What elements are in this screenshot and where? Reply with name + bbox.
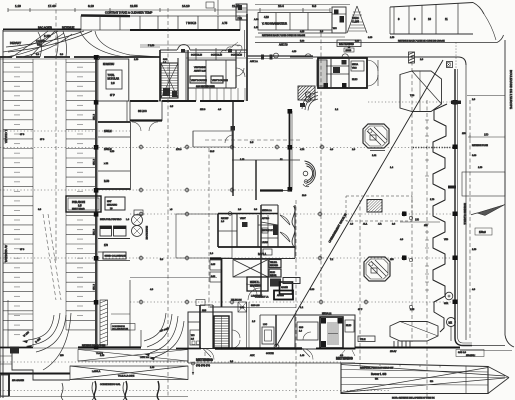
svg-text:MBL B: MBL B [94,113,96,120]
svg-text:ADMIN: ADMIN [281,286,288,289]
parking stalls col2 [66,63,95,330]
svg-text:RETENUE EAUX PLUIE CURE DE ORA: RETENUE EAUX PLUIE CURE DE ORAGE [262,34,305,37]
sab mali labels [456,350,484,358]
svg-text:175.8: 175.8 [176,149,182,151]
svg-text:TELE: TELE [360,339,366,341]
svg-text:5%: 5% [375,379,378,381]
columns on spine [94,55,99,349]
svg-text:VESTIAIRE: VESTIAIRE [194,66,206,69]
svg-text:RETENUE DE LA CUVEE: RETENUE DE LA CUVEE [82,344,106,347]
svg-text:17.40: 17.40 [48,4,56,8]
block L bottom-center [188,305,232,349]
svg-text:1.10: 1.10 [15,4,21,8]
svg-text:MECA 2.1: MECA 2.1 [322,312,332,315]
wall: center spine vertical x290 [288,109,293,192]
svg-text:150: 150 [415,219,420,222]
cluster: door swings right [280,205,295,258]
svg-text:CORNICHE DU GAL: CORNICHE DU GAL [100,383,121,386]
marker circle x [446,62,450,66]
stair block L [214,316,229,348]
wall: garage spine x96 [96,57,98,348]
dashed room top-right + hatch box [346,196,412,226]
svg-text:BETA PHILOTAPERO: BETA PHILOTAPERO [100,218,122,221]
svg-text:37 P: 37 P [110,95,115,97]
svg-text:REPAR: REPAR [270,274,277,277]
svg-text:KOMATSU: KOMATSU [103,63,115,66]
metering text R [336,350,355,361]
svg-text:MECA: MECA [352,63,359,66]
svg-text:ASK LA: ASK LA [250,60,258,63]
svg-text:VEST DOUCHE: VEST DOUCHE [191,80,207,82]
stair central (vertical hatch) [317,60,327,86]
north triangle hatched [471,205,505,216]
svg-text:V. PROGRAMMATEUR: V. PROGRAMMATEUR [262,23,287,26]
svg-text:MBL B: MBL B [94,228,96,235]
door arcs central right [367,60,378,71]
left small rooms [210,258,222,307]
dotted vertical top right [455,43,457,70]
canopy top hexagon [400,71,442,112]
top dimension line [8,4,330,12]
svg-text:C.195: C.195 [352,20,359,24]
ramp box bottom-right [341,363,509,400]
dim line right y137 [468,133,505,140]
light room right [462,172,505,196]
svg-text:18040: 18040 [346,50,352,52]
metering text L [192,352,214,367]
T bars mid-right [451,101,461,105]
scattered dimension texts [20,18,489,369]
svg-text:B.50: B.50 [104,180,110,183]
svg-text:CONNECT LA: CONNECT LA [255,296,269,299]
cabinets upper-main [190,76,228,83]
svg-text:MARKING: MARKING [250,285,261,288]
svg-text:4.R: 4.R [378,224,382,226]
svg-text:115.8: 115.8 [200,109,206,111]
svg-text:150LM: 150LM [104,130,112,133]
svg-text:ADMIN: ADMIN [277,294,284,297]
room MERK [247,277,268,298]
svg-text:WC: WC [333,28,337,30]
svg-text:GRND COLONNADE: GRND COLONNADE [105,255,126,258]
svg-text:150 AV: 150 AV [390,350,397,353]
svg-text:AV GENERAL: AV GENERAL [4,245,8,263]
svg-text:150 ARGEN: 150 ARGEN [12,379,24,382]
room PMR [236,4,247,20]
grid circles x411 [409,216,412,219]
wall: garage top (y57) [0,56,160,58]
hatched band right of spine (bottom) [100,300,135,345]
svg-text:LATIL 4%: LATIL 4% [140,356,149,359]
svg-text:ELEC: ELEC [346,325,352,327]
svg-text:BAC ACIER: BAC ACIER [38,26,52,30]
svg-text:SAS RECHERCHER: SAS RECHERCHER [196,85,215,88]
svg-text:MBL B: MBL B [94,283,96,290]
svg-text:RETENUE PLUIE: RETENUE PLUIE [472,145,489,147]
triangle hatch bottom strip left [78,350,188,362]
svg-text:MAT: MAT [107,200,112,203]
rooms right of spine y101-190 [94,101,131,290]
small box with X above chute [238,302,247,312]
road bottom-left [0,347,159,400]
stair upper-main [161,63,178,98]
svg-text:AUX: AUX [250,354,255,357]
svg-text:WC: WC [191,335,195,337]
column markers [138,144,407,305]
svg-text:SAS: SAS [299,326,304,329]
svg-text:RETENUE EAUX PLUIE DE CURE DE: RETENUE EAUX PLUIE DE CURE DE ORAGE [398,39,445,42]
big diagonal line [274,60,443,349]
svg-text:Retour L 9/8: Retour L 9/8 [371,372,387,376]
svg-text:PMR: PMR [238,18,243,20]
svg-text:VEST: VEST [240,218,246,220]
door arcs to exterior block L [203,349,214,360]
posts on axis y214 [402,212,407,217]
svg-text:METERING: METERING [339,42,354,46]
svg-text:TOLE A LA CAVE: TOLE A LA CAVE [118,375,135,378]
block: upper-main rooms [140,14,258,101]
stall number ticks [14,67,83,334]
svg-text:A.04: A.04 [254,18,259,21]
svg-text:L:159LA: L:159LA [92,370,101,373]
svg-text:ELEC: ELEC [270,272,276,274]
svg-text:12.55: 12.55 [130,4,138,8]
wall: building top edge right [290,57,466,340]
parking verticals [33,59,66,347]
building bottom step [188,349,355,375]
svg-text:PARKING FLEXIBLE: PARKING FLEXIBLE [463,203,466,225]
svg-text:TELECOM: TELECOM [231,300,242,302]
svg-text:4.10: 4.10 [264,16,269,19]
corridor L rooms x233-258 [205,101,300,200]
svg-text:150a0: 150a0 [479,231,486,234]
svg-text:GR: GR [37,43,41,47]
svg-text:VEST DOUCHE: VEST DOUCHE [212,80,228,82]
door arc upper-main [236,68,245,77]
stair diagonal-hatch below central [298,86,315,100]
wall: building bottom y348 [176,346,512,351]
kiosk octagon 2 [364,257,390,281]
svg-text:DEPART: DEPART [10,41,21,45]
svg-text:F 1.50: F 1.50 [148,45,155,47]
wall: upper-main bottom y101 [130,100,244,102]
box archi [66,196,101,212]
svg-text:RETENUE: RETENUE [62,26,75,30]
svg-text:RECEP: RECEP [221,218,229,220]
svg-text:LIVRE: LIVRE [262,242,268,244]
svg-text:8.10: 8.10 [88,4,94,8]
cluster bottom arcs [246,284,257,295]
svg-text:TOTAL: TOTAL [108,74,116,77]
svg-text:TELECL: TELECL [270,262,277,264]
cluster: west wing rooms [261,205,278,295]
svg-text:L CHAATA: L CHAATA [4,130,8,143]
tick row under canopy [394,341,410,347]
circle detail on right wall [445,292,453,300]
wall: top-left boundary [3,29,81,31]
svg-text:SCHKALIN: SCHKALIN [191,54,202,57]
ramp arc fan left [22,313,71,370]
ramp arc fan right [144,313,184,360]
open rect mid [176,214,232,258]
admin dark rooms [274,278,300,300]
svg-text:RECARD: RECARD [270,264,279,267]
aisle slant dashes [43,214,61,300]
metering box top [337,40,361,52]
svg-text:14.10: 14.10 [182,4,190,8]
wall: right double x455 [453,69,473,346]
elec stack [269,260,281,287]
corner post square [447,62,453,68]
svg-text:BOULEVARD DE L'EUROPE: BOULEVARD DE L'EUROPE [509,70,513,109]
chute double vertical [246,302,248,348]
kiosk octagon 1 [363,124,389,151]
ramp curves top-left (DEPART) [3,31,160,57]
grid axis dashes [56,3,470,398]
box mat mecanic [105,197,125,210]
svg-text:M2: M2 [449,321,453,325]
wall: bottom edge garage [0,280,141,348]
door arcs block L [232,330,240,338]
svg-text:VHB: VHB [444,239,449,241]
dim line right y222 [400,219,440,223]
svg-text:ELEC: ELEC [352,79,358,81]
room KOMATSU [98,59,129,101]
spiral stair detail (figure 8) [132,210,148,240]
svg-text:MEDIA LA: MEDIA LA [262,209,272,212]
room LOC left of cluster [260,315,295,348]
svg-text:SAS 3.96: SAS 3.96 [251,304,260,307]
ticks along x427 axis [425,120,429,290]
svg-text:2.6: 2.6 [111,81,115,85]
wall: corridor double y56 [247,55,313,57]
svg-text:SCHKALIN: SCHKALIN [231,54,242,57]
right road edge [505,40,514,347]
beta philotapero row [98,218,130,261]
svg-text:SCHKALIN: SCHKALIN [211,54,222,57]
svg-text:CONTRAT D'AXE & CLEANER TEMP: CONTRAT D'AXE & CLEANER TEMP [105,11,152,15]
wavy partition [292,206,295,246]
svg-text:ASK F.3: ASK F.3 [279,44,288,47]
svg-text:37 P: 37 P [358,309,363,311]
block: central mech rooms [318,58,367,88]
svg-text:RAMPE DBL PENTE B.05 DEBLE GH: RAMPE DBL PENTE B.05 DEBLE GHT [360,367,394,370]
svg-text:B 150: B 150 [44,35,51,38]
svg-text:BAY LA: BAY LA [258,253,267,256]
svg-text:7 BOX.B: 7 BOX.B [186,21,196,25]
wall: cluster y258 [210,258,295,260]
svg-text:5%: 5% [430,381,433,383]
svg-text:CONCESSION: CONCESSION [112,326,125,328]
svg-text:SAS: SAS [163,58,168,61]
road line upper right [255,34,504,43]
svg-text:EMME ROSE: EMME ROSE [145,226,147,240]
wall: y190 segment [260,189,283,191]
open rect upper [193,131,232,147]
wall: cluster mid y247 [218,246,295,248]
croissant sculpture [303,161,315,187]
svg-text:(C2) (C3) (C4): (C2) (C3) (C4) [196,365,210,367]
room: WC block top [332,7,346,33]
X strip bottom left [70,366,188,380]
gable triangle PARC [347,6,367,33]
svg-text:SAS: SAS [202,309,207,312]
hatch post top right [409,52,415,63]
svg-text:MODULAR: MODULAR [108,78,120,81]
room below upper-main [130,101,162,131]
svg-text:SAB 2.0: SAB 2.0 [458,351,467,354]
tele box right of block R [358,336,375,342]
svg-text:3.5: 3.5 [78,204,82,208]
svg-text:ENRT 5/22/3: ENRT 5/22/3 [72,209,85,211]
revision cloud [220,45,242,54]
cluster: reception rooms top [218,205,278,247]
svg-text:APPRO: APPRO [262,217,269,220]
block R bottom-center [295,312,355,349]
svg-text:MECANIC: MECANIC [107,204,118,207]
room strip B (top, second) [255,5,350,34]
wavy glass wall [433,104,447,332]
svg-text:A 75: A 75 [222,21,228,25]
door arcs to exterior block R [302,349,313,360]
svg-text:SORTIE: SORTIE [266,353,274,355]
svg-text:LOC: LOC [263,324,268,326]
parking band top-right [390,3,496,41]
room strip A (top storage row) [81,0,240,30]
svg-text:MALI: MALI [470,354,475,357]
svg-text:PARC: PARC [352,16,359,20]
svg-text:AVANT 2.16: AVANT 2.16 [194,70,207,73]
svg-text:SS LOC: SS LOC [138,110,147,113]
spiral ramp fan [300,92,318,111]
dotted strip y147 right [413,147,453,149]
svg-text:SDR: SDR [444,303,449,305]
svg-text:NOTA : RETENUE DE LA PENTE DU: NOTA : RETENUE DE LA PENTE DU TUBE 5% [392,397,435,400]
svg-text:VMC: VMC [352,68,357,70]
svg-text:MBL B: MBL B [94,158,96,165]
left road band [1,30,8,398]
svg-text:METERING: METERING [336,357,353,361]
dim line y45 [140,44,240,46]
canopy bottom hexagon [390,318,456,342]
svg-text:MERK LL: MERK LL [250,282,261,284]
node circle A [274,53,279,58]
svg-text:METERING: METERING [196,358,213,362]
stalls col3 bottom [8,300,130,347]
parking stalls col1 [3,63,33,330]
node at spine top [95,55,99,59]
X-braced void [233,260,268,278]
svg-text:150: 150 [484,133,489,137]
